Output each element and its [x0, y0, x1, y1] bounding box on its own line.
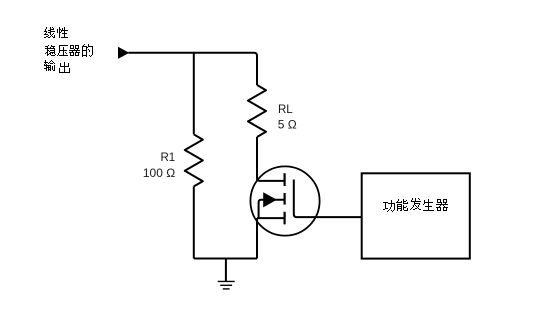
- text 稳压器的: [45, 44, 93, 57]
- wire source lead down: [256, 218, 258, 258]
- input terminal arrow: [118, 47, 129, 59]
- transistor Q1 gate plate and gate wire to function generator: [294, 180, 361, 218]
- wire source horizontal: [257, 217, 285, 219]
- transistor Q1 body line with arrow stem: [259, 200, 285, 218]
- wire R1 branch vertical upper: [193, 53, 195, 135]
- wire top horizontal from input arrow to RL branch corner: [129, 53, 258, 85]
- wire RL to MOSFET drain: [257, 137, 285, 181]
- wire bottom rail: [194, 258, 257, 260]
- svg-text:RL: RL: [278, 104, 293, 116]
- svg-text:100 Ω: 100 Ω: [143, 166, 175, 180]
- svg-text:R1: R1: [160, 152, 175, 164]
- svg-text:5 Ω: 5 Ω: [278, 117, 297, 131]
- resistor R1: [185, 134, 203, 186]
- resistor RL: [248, 85, 266, 137]
- transistor Q1 arrowhead: [263, 192, 277, 207]
- wire R1 branch vertical lower: [193, 186, 195, 258]
- wire ground stem: [225, 259, 227, 282]
- text 线性: [44, 27, 68, 38]
- transistor Q1 circle: [250, 166, 319, 235]
- text 功能发生器: [383, 198, 448, 212]
- function generator box: [362, 173, 470, 258]
- ground symbol bars: [218, 281, 235, 289]
- text 输出: [44, 60, 70, 73]
- transistor Q1 channel segments: [284, 173, 286, 224]
